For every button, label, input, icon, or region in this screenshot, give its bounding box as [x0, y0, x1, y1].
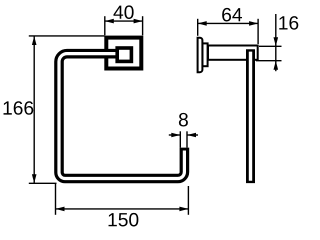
- dim 16: bottom extension line: [256, 60, 282, 62]
- dim 40: dimension line: [105, 20, 143, 22]
- dim 40: label: [113, 5, 133, 19]
- dim 8: extension line right: [186, 131, 188, 147]
- dim 16: arrow up (below): [274, 61, 279, 70]
- dim 40: extension line left: [104, 16, 106, 35]
- dim 166: top extension line: [29, 35, 105, 37]
- dim 166: label: [4, 101, 34, 115]
- dim 16: top extension line: [259, 45, 282, 47]
- dim 8: right leader with arrow: [187, 134, 198, 136]
- dim 64: dimension line: [198, 22, 258, 24]
- dim 64: label: [222, 8, 242, 22]
- side view boss: [202, 43, 207, 66]
- dim 16: arrow down (above): [274, 37, 279, 46]
- towel ring tube (black outline): [59, 54, 184, 179]
- dim 150: dimension line: [56, 208, 189, 210]
- towel ring tube (white core making double line): [59, 54, 184, 179]
- dim 166: dimension line: [33, 36, 35, 183]
- dim 166: arrow down: [32, 174, 37, 183]
- dim 40: extension line right: [142, 16, 144, 35]
- wall plate outer square: [106, 38, 141, 69]
- side view wall plate: [198, 38, 203, 72]
- dim 40: arrow right: [134, 19, 143, 24]
- dim 150: extension line right: [187, 186, 189, 215]
- dim 64: extension line left: [197, 19, 199, 36]
- dim 150: extension line left: [55, 184, 57, 215]
- dim 150: arrow right: [179, 207, 188, 212]
- dim 8: extension line left: [179, 131, 181, 147]
- side view hanging bar (black): [246, 49, 255, 183]
- dim 16: dimension line: [275, 14, 277, 71]
- side view hanging bar (white core): [249, 52, 252, 181]
- dim 16: label: [279, 16, 298, 30]
- dim 8: left leader with arrow: [169, 134, 181, 136]
- dim 150: label: [109, 213, 139, 227]
- dim 8: label: [179, 113, 188, 127]
- dim 166: arrow up: [32, 36, 37, 45]
- dim 64: extension line right: [257, 19, 259, 44]
- side view arm: [208, 46, 258, 60]
- dim 64: arrow right: [249, 21, 258, 26]
- wall plate inner square: [117, 48, 131, 61]
- dim 150: arrow left: [56, 207, 65, 212]
- dim 166: bottom extension line: [29, 182, 57, 184]
- dim 64: arrow left: [198, 21, 207, 26]
- dim 40: arrow left: [105, 19, 114, 24]
